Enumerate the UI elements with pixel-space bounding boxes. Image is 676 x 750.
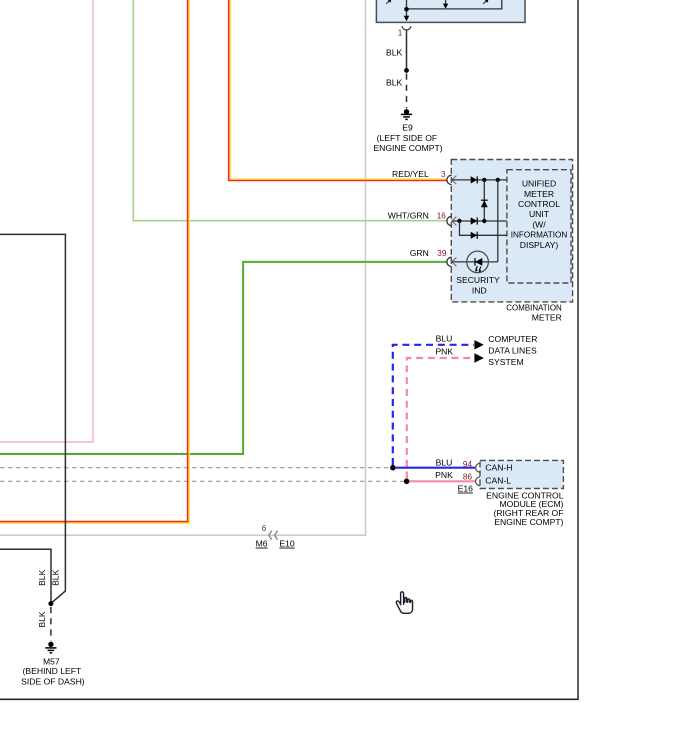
svg-text:WHT/GRN: WHT/GRN	[388, 210, 429, 220]
svg-text:UNIFIED: UNIFIED	[522, 179, 556, 189]
label COMBINATION METER	[506, 302, 562, 322]
svg-text:16: 16	[437, 211, 447, 220]
junction splice (BLK)	[404, 68, 409, 73]
wire (gray, through M6/E10)	[0, 0, 366, 535]
junction (pin 16 row, mid)	[482, 219, 486, 223]
svg-text:1: 1	[398, 29, 403, 38]
wire WHT/GRN (to combination meter pin 16)	[133, 0, 447, 221]
svg-text:DATA LINES: DATA LINES	[488, 346, 537, 356]
arrow (to computer data lines, PNK)	[474, 353, 483, 362]
wire PNK dashed (computer data lines)	[407, 358, 474, 479]
wire (meter internal, pin 39 row)	[452, 261, 498, 263]
connector pin 94 (ECM, CAN-H)	[476, 463, 480, 472]
arrow (cut, top-left)	[386, 0, 391, 4]
wire (internal bus, top module)	[407, 0, 502, 17]
arrow (down, to pin 1)	[404, 16, 409, 21]
connector pin 86 (ECM, CAN-L)	[476, 477, 480, 486]
svg-text:METER: METER	[524, 189, 554, 199]
svg-text:COMBINATION: COMBINATION	[506, 302, 562, 312]
svg-text:CONTROL: CONTROL	[518, 199, 560, 209]
wire (meter internal, pin 16 row)	[452, 220, 507, 222]
connector pin 39 (combination meter)	[447, 257, 457, 266]
combination meter box	[451, 160, 572, 302]
wire RED/YEL (left branch, to page edge)	[0, 0, 189, 523]
connector pin 3 (combination meter)	[447, 175, 457, 184]
diode D2 (vertical, pointing up)	[481, 200, 488, 207]
label COMPUTER DATA LINES SYSTEM	[488, 334, 537, 367]
svg-text:E16: E16	[458, 484, 474, 494]
svg-text:3: 3	[441, 170, 446, 179]
svg-text:METER: METER	[532, 313, 562, 323]
svg-text:BLK: BLK	[37, 611, 47, 628]
ECM box	[480, 460, 563, 488]
arrow (to computer data lines, BLU)	[474, 340, 483, 349]
svg-text:PNK: PNK	[435, 470, 453, 480]
svg-text:DISPLAY): DISPLAY)	[520, 240, 559, 250]
cursor (hand pointer)	[396, 592, 412, 614]
border frame (right and bottom, unlabeled decorative)	[577, 0, 579, 700]
wire (meter internal, pin 3 row)	[452, 179, 507, 181]
connector M6/E10	[256, 524, 295, 549]
svg-text:PNK: PNK	[435, 347, 453, 357]
LED security indicator	[456, 251, 500, 295]
diode D3 (pin 16 row)	[471, 217, 478, 224]
junction (top module bus)	[404, 7, 409, 12]
wire (meter internal, lower branch)	[460, 221, 507, 235]
svg-text:BLK: BLK	[51, 569, 61, 586]
svg-text:(LEFT SIDE OF: (LEFT SIDE OF	[377, 133, 437, 143]
wire BLK (left, lower branch to splice M57)	[0, 549, 51, 603]
wire RED/YEL (to combination meter pin 3)	[229, 0, 447, 181]
svg-text:6: 6	[262, 524, 267, 533]
wire BLU solid (CAN-H)	[396, 467, 475, 469]
svg-text:SECURITY: SECURITY	[456, 275, 500, 285]
junction (pin 3 row, left)	[482, 178, 486, 182]
svg-text:94: 94	[463, 460, 473, 469]
wire BLK dashed (splice to ground M57)	[50, 607, 52, 641]
wire BLK dashed (splice to ground E9)	[406, 74, 408, 109]
module box (top of page, partial)	[376, 0, 525, 22]
junction (pin 16 row, left)	[457, 219, 461, 223]
svg-text:BLK: BLK	[37, 569, 47, 586]
junction (CAN-H)	[390, 465, 396, 471]
wire BLK (pin 1 to splice)	[406, 30, 408, 71]
junction (CAN-L)	[404, 479, 410, 485]
wire (meter internal, vertical to pin 16 row)	[483, 180, 485, 221]
svg-text:BLK: BLK	[386, 77, 403, 87]
diode D4 (lower branch)	[471, 232, 478, 239]
arrow (cut, top-right)	[483, 0, 488, 4]
connector pin 16 (combination meter)	[447, 216, 457, 225]
svg-text:ENGINE COMPT): ENGINE COMPT)	[494, 517, 563, 527]
wire GRN (to combination meter pin 39)	[0, 262, 447, 454]
arrow (down, onto bus)	[443, 4, 448, 9]
wire (meter internal, vertical right)	[497, 180, 499, 262]
svg-text:UNIT: UNIT	[529, 209, 550, 219]
svg-text:(W/: (W/	[532, 219, 546, 229]
unified meter control unit box	[507, 170, 571, 283]
svg-text:M57: M57	[43, 656, 60, 666]
svg-text:CAN-H: CAN-H	[485, 463, 512, 473]
svg-text:BLU: BLU	[436, 333, 453, 343]
svg-text:SYSTEM: SYSTEM	[488, 357, 523, 367]
svg-text:E9: E9	[402, 122, 413, 132]
svg-text:BLK: BLK	[386, 48, 403, 58]
svg-text:GRN: GRN	[410, 248, 429, 258]
svg-text:E10: E10	[279, 539, 295, 549]
wire BLK (left, upper branch to splice M57)	[0, 234, 65, 603]
svg-text:CAN-L: CAN-L	[485, 476, 511, 486]
svg-text:INFORMATION: INFORMATION	[511, 230, 568, 240]
svg-text:IND: IND	[472, 285, 487, 295]
svg-text:COMPUTER: COMPUTER	[488, 334, 537, 344]
ground M57	[21, 642, 85, 687]
svg-text:RED/YEL: RED/YEL	[392, 169, 429, 179]
wire PNK solid (CAN-L)	[410, 480, 476, 482]
svg-text:BLU: BLU	[436, 457, 453, 467]
connector pin 1	[398, 26, 411, 37]
wire BLU dashed (computer data lines)	[393, 345, 474, 465]
svg-text:SIDE OF DASH): SIDE OF DASH)	[21, 676, 85, 686]
junction (pin 3 row, right)	[496, 178, 500, 182]
ground E9	[373, 109, 442, 153]
diode D1 (pin 3 row)	[471, 176, 478, 183]
label ENGINE CONTROL MODULE (ECM)	[486, 490, 564, 527]
svg-text:(BEHIND LEFT: (BEHIND LEFT	[23, 666, 82, 676]
wire shield dashed (gray, CAN-H row)	[0, 467, 390, 469]
junction splice (to M57)	[48, 601, 53, 606]
svg-text:ENGINE COMPT): ENGINE COMPT)	[373, 143, 442, 153]
svg-text:39: 39	[437, 249, 447, 258]
svg-text:M6: M6	[256, 539, 268, 549]
wire PNK (left, to page edge)	[0, 0, 93, 442]
wire shield dashed (gray, CAN-L row)	[0, 480, 404, 482]
svg-text:86: 86	[463, 473, 473, 482]
